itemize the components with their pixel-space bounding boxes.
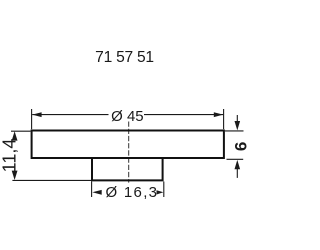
dim Ø45 extension line right [223,109,225,129]
dim Ø45 line left segment [32,114,108,116]
dim 11,4 top extension line [11,130,31,132]
dim Ø45 extension line left [31,109,33,129]
flange body (big rectangle) [32,131,224,159]
svg-text:71 57 51: 71 57 51 [95,49,154,66]
dim 11,4 arrow down [12,171,18,180]
dim 6 top extension line [225,130,244,132]
dim 6 upper arrow (points down) [236,115,238,122]
dim Ø45 arrow right [214,112,223,117]
dim 11,4 arrow up [12,131,18,140]
centerline (dash-dot) [128,122,130,183]
dim Ø16,3 arrow left [92,190,101,195]
spigot (small rectangle, open top) [92,158,163,180]
dim Ø45 line right segment [144,114,223,116]
dim Ø45 arrow left [32,112,41,117]
dim 11,4 bottom extension line [12,179,91,181]
dim Ø16,3 extension line right [163,182,165,198]
dim Ø16,3 extension line left [91,182,93,198]
dim 6 bottom extension line [227,158,244,160]
svg-text:Ø 16,3: Ø 16,3 [105,184,158,201]
svg-text:Ø 45: Ø 45 [111,108,144,125]
svg-text:11,4: 11,4 [0,139,19,173]
svg-text:6: 6 [231,142,250,151]
dim 6 lower arrow (points up) [236,169,238,178]
dim Ø16,3 arrow right [157,190,164,194]
